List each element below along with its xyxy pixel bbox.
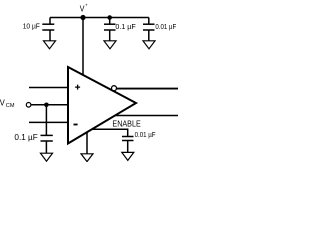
capacitor C1 10uF [23, 18, 55, 41]
wire top supply rail [50, 17, 149, 19]
plus symbol (noninverting input) [75, 85, 80, 90]
node VCM label [0, 99, 15, 110]
junction dot VCM [44, 103, 49, 108]
svg-text:0.01 µF: 0.01 µF [155, 22, 176, 31]
wire VCM input [31, 104, 67, 106]
junction dot at C2 [107, 15, 112, 20]
svg-text:10 µF: 10 µF [23, 22, 41, 31]
ground (C2) [104, 41, 116, 49]
wire output [117, 88, 178, 90]
op-amp U1 [68, 67, 136, 144]
node V+ label [80, 2, 88, 13]
ground (C1) [44, 41, 56, 49]
wire V+ lead down to op-amp [82, 18, 84, 76]
capacitor C2 0.1uF [104, 18, 136, 41]
ground (C3) [143, 41, 155, 49]
wire - input [29, 121, 67, 123]
wire ENABLE [115, 115, 178, 117]
capacitor C5 0.01uF [122, 130, 156, 153]
svg-text:0.1 µF: 0.1 µF [115, 22, 136, 31]
junction dot at V+ lead [80, 15, 85, 20]
wire V- to C5 [92, 129, 128, 136]
ground (C4) [41, 153, 53, 161]
capacitor C4 0.1uF [14, 105, 52, 153]
capacitor C3 0.01uF [143, 18, 177, 41]
output bubble [112, 86, 117, 91]
svg-text:0.01 µF: 0.01 µF [135, 130, 156, 139]
svg-text:0.1 µF: 0.1 µF [14, 133, 37, 142]
svg-text:V: V [0, 99, 5, 108]
minus symbol (inverting input) [74, 124, 78, 126]
svg-text:CM: CM [6, 103, 15, 109]
svg-text:+: + [85, 2, 88, 7]
ground (C5) [122, 152, 134, 160]
wire V- ground lead [86, 132, 88, 154]
ground (op-amp V-) [81, 154, 93, 162]
svg-text:ENABLE: ENABLE [112, 119, 141, 129]
wire + input [29, 87, 67, 89]
VCM input terminal circle [26, 103, 31, 108]
